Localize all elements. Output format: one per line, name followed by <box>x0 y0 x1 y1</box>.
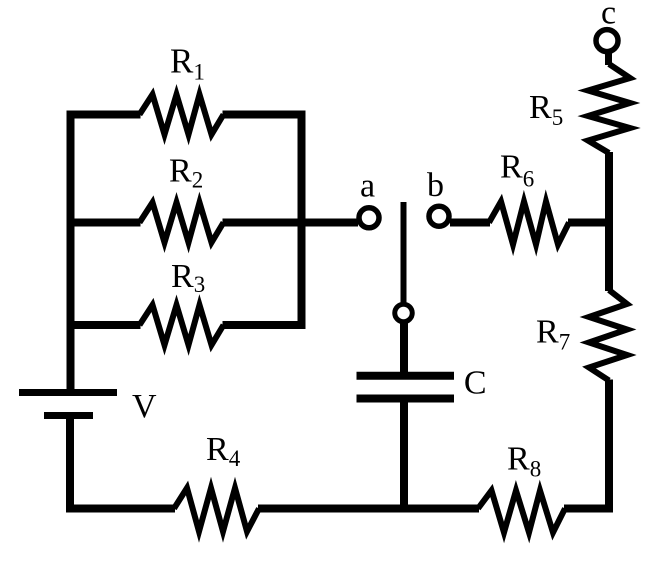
resistor R2 <box>140 203 224 243</box>
switch blade wire <box>401 202 407 303</box>
node a terminal circle <box>359 208 379 228</box>
svg-text:V: V <box>132 388 157 425</box>
wire: right rail R5 to R7 <box>605 152 613 291</box>
wire: R2 branch right lead to terminal a <box>223 219 359 227</box>
capacitor C bottom plate <box>357 395 455 403</box>
wire: bottom rail right segment <box>564 505 613 513</box>
resistor R4 <box>174 488 259 532</box>
wire: c to R5 <box>605 52 612 65</box>
wire: switch to capacitor <box>400 323 408 377</box>
battery V long plate <box>19 389 117 396</box>
battery V short plate <box>44 412 93 419</box>
wire: bottom rail middle segment <box>258 505 479 513</box>
node c terminal circle <box>596 30 618 52</box>
resistor R1 <box>140 95 224 135</box>
node b terminal circle <box>429 206 449 226</box>
resistor R7 <box>589 290 627 381</box>
wire: bottom rail left segment <box>66 505 175 513</box>
resistor R5 <box>588 64 630 153</box>
wire: R1 branch left lead <box>67 111 141 119</box>
resistor R8 <box>478 491 565 533</box>
wire: R6 to right rail <box>568 219 613 227</box>
wire: R1 branch right lead <box>223 111 306 119</box>
resistor R6 <box>489 202 569 245</box>
wire: R2 branch left lead <box>67 219 141 227</box>
svg-text:c: c <box>601 0 616 31</box>
capacitor C top plate <box>357 372 455 380</box>
svg-text:b: b <box>427 167 444 204</box>
resistor R3 <box>140 305 224 345</box>
wire: R3 branch left lead <box>67 321 141 329</box>
wire: right vertical of parallel block <box>298 111 306 329</box>
wire: b to R6 <box>450 219 490 227</box>
wire: R3 branch right lead <box>223 321 306 329</box>
switch pivot circle <box>395 304 413 322</box>
wire: left vertical rail (top of block to battery) <box>67 111 75 392</box>
wire: battery to bottom rail <box>66 416 74 513</box>
svg-text:C: C <box>464 365 487 402</box>
wire: right rail R7 to bottom <box>605 380 613 513</box>
wire: capacitor to bottom rail <box>400 399 408 513</box>
svg-text:a: a <box>360 168 375 205</box>
